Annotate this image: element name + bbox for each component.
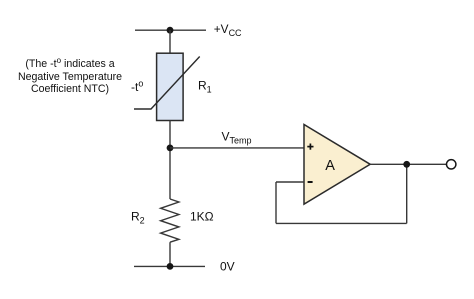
wire feedback right vertical xyxy=(406,164,408,223)
svg-text:1KΩ: 1KΩ xyxy=(190,209,214,223)
thermistor R1 diagonal stroke xyxy=(134,57,200,110)
wire op-amp minus input xyxy=(276,181,304,183)
node 0V junction xyxy=(167,263,174,270)
op-amp plus input mark xyxy=(307,144,313,150)
wire VTemp to op-amp + input xyxy=(170,147,304,149)
node VTemp junction xyxy=(167,145,174,152)
node output junction xyxy=(403,161,410,168)
wire feedback bottom horizontal xyxy=(276,222,407,224)
resistor R2 zigzag xyxy=(161,199,179,242)
wire R2 to ground rail xyxy=(169,242,171,266)
output terminal circle xyxy=(447,160,456,169)
svg-text:Negative Temperature: Negative Temperature xyxy=(18,71,122,83)
svg-text:0V: 0V xyxy=(220,260,235,274)
wire op-amp output xyxy=(370,163,446,165)
op-amp U1 body xyxy=(304,125,370,205)
wire top supply rail xyxy=(135,29,206,31)
wire thermistor to R2 xyxy=(169,121,171,200)
thermistor R1 body xyxy=(157,53,184,120)
op-amp minus input mark xyxy=(308,181,313,183)
svg-text:Coefficient NTC): Coefficient NTC) xyxy=(31,83,109,95)
wire VCC to thermistor xyxy=(169,30,171,53)
node +VCC junction xyxy=(167,27,174,34)
svg-text:(The -to indicates a: (The -to indicates a xyxy=(25,56,114,70)
wire 0V ground rail xyxy=(134,265,205,267)
wire feedback left vertical xyxy=(275,182,277,223)
svg-text:A: A xyxy=(325,158,335,174)
